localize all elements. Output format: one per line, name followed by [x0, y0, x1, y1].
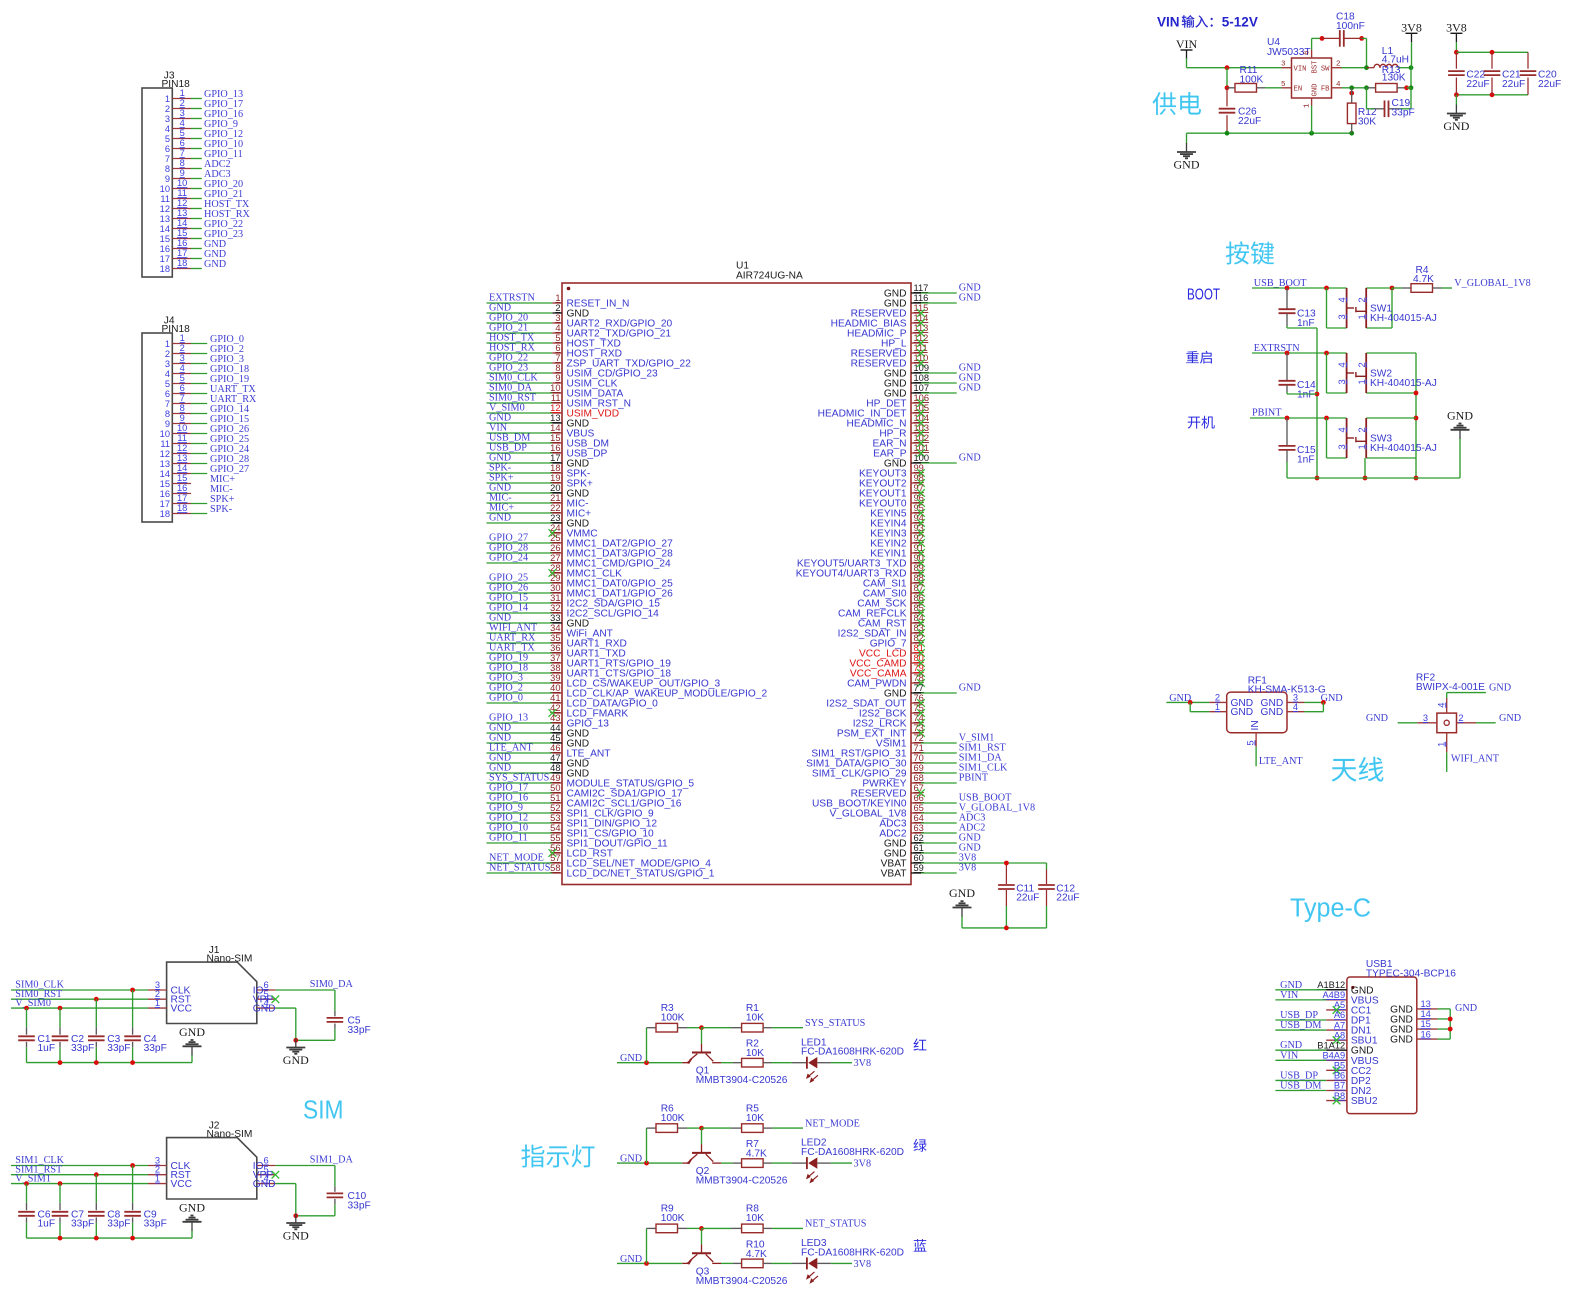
svg-text:12: 12 — [177, 443, 187, 453]
svg-text:66: 66 — [914, 793, 924, 803]
svg-text:4: 4 — [1337, 427, 1347, 432]
svg-text:35: 35 — [550, 633, 560, 643]
svg-text:B4A9: B4A9 — [1322, 1050, 1345, 1060]
svg-text:58: 58 — [550, 863, 560, 873]
svg-text:7: 7 — [180, 393, 185, 403]
svg-text:4: 4 — [180, 118, 185, 128]
svg-text:GND: GND — [959, 683, 981, 694]
svg-text:45: 45 — [550, 733, 560, 743]
svg-text:44: 44 — [550, 723, 560, 733]
svg-text:8: 8 — [180, 158, 185, 168]
svg-text:GND: GND — [283, 1053, 309, 1067]
svg-text:17: 17 — [177, 493, 187, 503]
svg-text:108: 108 — [914, 373, 930, 383]
svg-text:LCD_DC/NET_STATUS/GPIO_1: LCD_DC/NET_STATUS/GPIO_1 — [567, 869, 715, 880]
svg-text:GND: GND — [253, 1004, 276, 1015]
svg-text:13: 13 — [1421, 999, 1431, 1009]
svg-text:GND: GND — [959, 383, 981, 394]
svg-text:9: 9 — [165, 419, 170, 429]
svg-text:54: 54 — [550, 823, 560, 833]
svg-text:6: 6 — [1304, 50, 1312, 55]
svg-text:9: 9 — [165, 174, 170, 184]
svg-text:WIFI_ANT: WIFI_ANT — [1451, 754, 1500, 765]
svg-text:21: 21 — [550, 493, 560, 503]
svg-text:41: 41 — [550, 693, 560, 703]
svg-text:MMBT3904-C20526: MMBT3904-C20526 — [696, 1075, 788, 1086]
svg-text:2: 2 — [1357, 297, 1367, 302]
svg-text:GND: GND — [959, 453, 981, 464]
svg-text:1: 1 — [1436, 742, 1446, 747]
svg-text:SW: SW — [1321, 65, 1330, 73]
svg-text:1: 1 — [180, 333, 185, 343]
svg-text:V_SIM1: V_SIM1 — [15, 1173, 51, 1184]
svg-text:VIN: VIN — [1280, 1050, 1299, 1061]
svg-text:GND: GND — [204, 259, 226, 270]
svg-text:V_SIM0: V_SIM0 — [15, 998, 51, 1009]
svg-text:USB_DM: USB_DM — [1280, 1020, 1321, 1031]
svg-text:114: 114 — [914, 313, 929, 323]
svg-text:4: 4 — [1293, 702, 1298, 712]
svg-text:4: 4 — [1336, 81, 1341, 89]
svg-text:38: 38 — [550, 663, 560, 673]
svg-text:GND: GND — [1455, 1003, 1477, 1014]
svg-text:FC-DA1608HRK-620D: FC-DA1608HRK-620D — [801, 1247, 904, 1258]
svg-text:22uF: 22uF — [1466, 79, 1489, 90]
svg-text:17: 17 — [160, 499, 170, 509]
svg-text:4: 4 — [555, 323, 560, 333]
svg-text:72: 72 — [914, 733, 924, 743]
svg-text:GND: GND — [1174, 158, 1200, 172]
svg-text:A1B12: A1B12 — [1317, 980, 1345, 990]
svg-text:13: 13 — [177, 453, 187, 463]
svg-text:77: 77 — [914, 683, 924, 693]
svg-text:15: 15 — [1421, 1019, 1431, 1029]
svg-text:59: 59 — [914, 863, 924, 873]
svg-text:4: 4 — [1436, 703, 1446, 708]
svg-text:3: 3 — [165, 114, 170, 124]
svg-text:36: 36 — [550, 643, 560, 653]
svg-text:KH-404015-AJ: KH-404015-AJ — [1370, 313, 1437, 324]
svg-text:11: 11 — [177, 433, 187, 443]
svg-text:TYPEC-304-BCP16: TYPEC-304-BCP16 — [1366, 968, 1456, 979]
svg-text:39: 39 — [550, 673, 560, 683]
svg-text:61: 61 — [914, 843, 924, 853]
svg-text:A7: A7 — [1334, 1020, 1345, 1030]
svg-text:3: 3 — [180, 353, 185, 363]
svg-text:40: 40 — [550, 683, 560, 693]
svg-text:PBINT: PBINT — [1252, 408, 1282, 419]
svg-text:6: 6 — [555, 343, 560, 353]
svg-text:22uF: 22uF — [1016, 893, 1039, 904]
svg-text:71: 71 — [914, 743, 924, 753]
svg-text:5-12V: 5-12V — [1222, 15, 1258, 30]
svg-text:22: 22 — [550, 503, 560, 513]
svg-text:100K: 100K — [661, 1013, 685, 1024]
svg-text:VCC: VCC — [171, 1004, 193, 1015]
svg-text:14: 14 — [1421, 1009, 1431, 1019]
svg-text:GND: GND — [489, 513, 511, 524]
svg-text:130K: 130K — [1382, 72, 1406, 83]
svg-text:USB_DM: USB_DM — [1280, 1081, 1321, 1092]
svg-text:15: 15 — [160, 479, 170, 489]
svg-text:68: 68 — [914, 773, 924, 783]
svg-text:3V8: 3V8 — [1401, 20, 1422, 34]
svg-text:16: 16 — [550, 443, 560, 453]
svg-text:65: 65 — [914, 803, 924, 813]
svg-text:27: 27 — [550, 553, 560, 563]
svg-text:10K: 10K — [746, 1048, 764, 1059]
svg-text:23: 23 — [550, 513, 560, 523]
svg-text:4.7K: 4.7K — [746, 1149, 767, 1160]
svg-text:VCC: VCC — [171, 1179, 193, 1190]
svg-text:49: 49 — [550, 773, 560, 783]
svg-text:16: 16 — [177, 483, 187, 493]
svg-text:33pF: 33pF — [348, 1025, 371, 1036]
svg-text:VIN: VIN — [1176, 37, 1198, 51]
svg-text:33pF: 33pF — [107, 1043, 130, 1054]
svg-text:2: 2 — [1458, 713, 1463, 723]
svg-text:10: 10 — [177, 178, 187, 188]
svg-text:VIN: VIN — [1294, 65, 1307, 73]
svg-text:10K: 10K — [746, 1213, 764, 1224]
svg-text:112: 112 — [914, 333, 929, 343]
svg-text:GND: GND — [1231, 707, 1254, 718]
svg-text:5: 5 — [1246, 740, 1256, 745]
svg-text:PIN18: PIN18 — [162, 324, 191, 335]
svg-text:31: 31 — [550, 593, 560, 603]
svg-text:1nF: 1nF — [1297, 390, 1315, 401]
svg-text:4: 4 — [1337, 297, 1347, 302]
svg-text:3: 3 — [1281, 61, 1286, 69]
svg-text:37: 37 — [550, 653, 560, 663]
svg-text:BWIPX-4-001E: BWIPX-4-001E — [1416, 682, 1485, 693]
svg-text:30: 30 — [550, 583, 560, 593]
svg-text:111: 111 — [914, 343, 928, 353]
svg-text:1: 1 — [1304, 103, 1312, 108]
svg-text:57: 57 — [550, 853, 560, 863]
svg-text:GND: GND — [1312, 84, 1320, 97]
svg-text:GPIO_0: GPIO_0 — [489, 693, 523, 704]
svg-text:15: 15 — [550, 433, 560, 443]
svg-text:60: 60 — [914, 853, 924, 863]
svg-text:33pF: 33pF — [144, 1043, 167, 1054]
svg-text:9: 9 — [555, 373, 560, 383]
svg-text:17: 17 — [160, 254, 170, 264]
svg-text:2: 2 — [165, 104, 170, 114]
svg-text:SYS_STATUS: SYS_STATUS — [805, 1018, 866, 1029]
svg-text:SIM1_DA: SIM1_DA — [310, 1155, 354, 1166]
svg-text:5: 5 — [180, 128, 185, 138]
svg-text:6: 6 — [180, 383, 185, 393]
svg-text:9: 9 — [180, 168, 185, 178]
svg-text:14: 14 — [160, 224, 170, 234]
svg-text:12: 12 — [160, 204, 170, 214]
svg-text:16: 16 — [160, 489, 170, 499]
svg-text:25: 25 — [550, 533, 560, 543]
svg-text:18: 18 — [550, 463, 560, 473]
svg-text:26: 26 — [550, 543, 560, 553]
svg-text:4.7K: 4.7K — [746, 1249, 767, 1260]
svg-text:GND: GND — [1443, 119, 1469, 133]
svg-text:13: 13 — [160, 214, 170, 224]
svg-text:1uF: 1uF — [38, 1219, 56, 1230]
svg-text:4.7K: 4.7K — [1413, 274, 1434, 285]
svg-text:2: 2 — [1357, 427, 1367, 432]
svg-text:10K: 10K — [746, 1013, 764, 1024]
svg-text:101: 101 — [914, 443, 930, 453]
svg-text:11: 11 — [160, 194, 170, 204]
svg-text:64: 64 — [914, 813, 924, 823]
svg-text:1: 1 — [1357, 379, 1367, 384]
svg-text:109: 109 — [914, 363, 930, 373]
svg-text:2: 2 — [180, 98, 185, 108]
svg-text:1: 1 — [165, 94, 170, 104]
svg-text:1nF: 1nF — [1297, 455, 1315, 466]
svg-text:33pF: 33pF — [144, 1219, 167, 1230]
svg-text:3V8: 3V8 — [854, 1159, 872, 1170]
svg-text:55: 55 — [550, 833, 560, 843]
svg-text:7: 7 — [555, 353, 560, 363]
svg-text:1: 1 — [555, 293, 560, 303]
svg-text:11: 11 — [551, 393, 561, 403]
svg-text:102: 102 — [914, 433, 930, 443]
svg-text:14: 14 — [177, 463, 187, 473]
svg-text:105: 105 — [914, 403, 930, 413]
svg-text:GND: GND — [1499, 713, 1521, 724]
svg-text:14: 14 — [550, 423, 560, 433]
svg-text:8: 8 — [180, 403, 185, 413]
svg-text:Nano-SIM: Nano-SIM — [207, 954, 253, 965]
svg-text:FC-DA1608HRK-620D: FC-DA1608HRK-620D — [801, 1147, 904, 1158]
svg-text:6: 6 — [180, 138, 185, 148]
svg-text:Type-C: Type-C — [1290, 895, 1371, 923]
svg-text:48: 48 — [550, 763, 560, 773]
svg-text:12: 12 — [177, 198, 187, 208]
svg-text:SIM: SIM — [303, 1097, 344, 1125]
svg-text:100K: 100K — [1240, 75, 1264, 86]
svg-text:GND: GND — [1447, 408, 1473, 422]
svg-text:1uF: 1uF — [38, 1043, 56, 1054]
svg-text:4: 4 — [165, 369, 170, 379]
svg-text:3: 3 — [1423, 713, 1428, 723]
svg-text:4: 4 — [165, 124, 170, 134]
svg-text:14: 14 — [177, 218, 187, 228]
svg-text:33pF: 33pF — [1392, 107, 1415, 118]
svg-text:Nano-SIM: Nano-SIM — [207, 1129, 253, 1140]
svg-text:22uF: 22uF — [1056, 893, 1079, 904]
svg-text:MMBT3904-C20526: MMBT3904-C20526 — [696, 1176, 788, 1187]
svg-text:A6: A6 — [1334, 1010, 1345, 1020]
svg-text:VIN: VIN — [1157, 15, 1180, 30]
svg-text:8: 8 — [165, 409, 170, 419]
svg-text:B7: B7 — [1334, 1081, 1345, 1091]
svg-text:100K: 100K — [661, 1213, 685, 1224]
svg-text:MMBT3904-C20526: MMBT3904-C20526 — [696, 1276, 788, 1287]
svg-text:GND: GND — [1261, 707, 1284, 718]
svg-text:2: 2 — [165, 349, 170, 359]
svg-text:22uF: 22uF — [1238, 116, 1261, 127]
svg-text:3V8: 3V8 — [854, 1058, 872, 1069]
svg-text:1: 1 — [155, 998, 160, 1008]
svg-text:GND: GND — [253, 1179, 276, 1190]
svg-text:47: 47 — [550, 753, 560, 763]
svg-text:13: 13 — [550, 413, 560, 423]
svg-text:33pF: 33pF — [348, 1200, 371, 1211]
svg-text:8: 8 — [165, 164, 170, 174]
svg-text:GND: GND — [959, 293, 981, 304]
svg-text:8: 8 — [555, 363, 560, 373]
svg-text:3: 3 — [555, 313, 560, 323]
svg-text:1: 1 — [1357, 444, 1367, 449]
svg-text:16: 16 — [177, 238, 187, 248]
svg-text:46: 46 — [550, 743, 560, 753]
svg-text:3: 3 — [1337, 444, 1347, 449]
svg-text:34: 34 — [550, 623, 560, 633]
svg-text:29: 29 — [550, 573, 560, 583]
svg-text:GPIO_24: GPIO_24 — [489, 553, 528, 564]
svg-text:13: 13 — [177, 208, 187, 218]
svg-text:5: 5 — [165, 134, 170, 144]
svg-text:3V8: 3V8 — [959, 863, 977, 874]
svg-text:12: 12 — [160, 449, 170, 459]
svg-text:10: 10 — [550, 383, 560, 393]
svg-text:GND: GND — [1390, 1035, 1413, 1046]
svg-text:50: 50 — [550, 783, 560, 793]
svg-text:100K: 100K — [661, 1113, 685, 1124]
svg-text:104: 104 — [914, 413, 930, 423]
svg-text:SBU2: SBU2 — [1351, 1096, 1378, 1107]
svg-text:GND: GND — [179, 1200, 205, 1214]
svg-text:18: 18 — [160, 509, 170, 519]
svg-text:10: 10 — [160, 184, 170, 194]
svg-text:9: 9 — [180, 413, 185, 423]
svg-text:52: 52 — [550, 803, 560, 813]
svg-text:SPK-: SPK- — [210, 504, 233, 515]
svg-text:107: 107 — [914, 383, 930, 393]
svg-text:13: 13 — [160, 459, 170, 469]
svg-text:15: 15 — [177, 473, 187, 483]
svg-text:10K: 10K — [746, 1113, 764, 1124]
svg-text:2: 2 — [1357, 362, 1367, 367]
svg-text:GND: GND — [1489, 683, 1511, 694]
svg-text:32: 32 — [550, 603, 560, 613]
svg-text:4: 4 — [1337, 362, 1347, 367]
svg-text:18: 18 — [177, 258, 187, 268]
svg-text:53: 53 — [550, 813, 560, 823]
svg-text:5: 5 — [180, 373, 185, 383]
svg-text:18: 18 — [160, 264, 170, 274]
svg-text:20: 20 — [550, 483, 560, 493]
svg-text:69: 69 — [914, 763, 924, 773]
svg-text:19: 19 — [550, 473, 560, 483]
svg-text:BST: BST — [1312, 60, 1320, 74]
svg-text:FC-DA1608HRK-620D: FC-DA1608HRK-620D — [801, 1047, 904, 1058]
svg-text:PBINT: PBINT — [959, 773, 989, 784]
svg-text:7: 7 — [165, 399, 170, 409]
svg-text:113: 113 — [914, 323, 929, 333]
svg-text:5: 5 — [555, 333, 560, 343]
svg-text:100: 100 — [914, 453, 930, 463]
svg-text:117: 117 — [914, 283, 929, 293]
svg-text:5: 5 — [1281, 81, 1286, 89]
svg-text:GPIO_11: GPIO_11 — [489, 833, 528, 844]
svg-text:V_GLOBAL_1V8: V_GLOBAL_1V8 — [1454, 278, 1530, 289]
svg-text:1nF: 1nF — [1297, 318, 1315, 329]
svg-text:GND: GND — [1366, 713, 1388, 724]
svg-text:17: 17 — [550, 453, 560, 463]
svg-text:16: 16 — [1421, 1029, 1431, 1039]
svg-text:A4B9: A4B9 — [1322, 990, 1345, 1000]
svg-text:SIM0_DA: SIM0_DA — [310, 979, 354, 990]
svg-text:43: 43 — [550, 713, 560, 723]
svg-text:FB: FB — [1321, 86, 1330, 94]
svg-text:1: 1 — [1357, 314, 1367, 319]
svg-text:1: 1 — [155, 1174, 160, 1184]
svg-text:5: 5 — [165, 379, 170, 389]
svg-text:3V8: 3V8 — [1446, 20, 1467, 34]
svg-text:116: 116 — [914, 293, 929, 303]
svg-text:4: 4 — [180, 363, 185, 373]
svg-text:22uF: 22uF — [1538, 79, 1561, 90]
svg-text:4.7uH: 4.7uH — [1382, 54, 1409, 65]
svg-text:33pF: 33pF — [107, 1219, 130, 1230]
svg-text:7: 7 — [180, 148, 185, 158]
svg-text:KH-404015-AJ: KH-404015-AJ — [1370, 443, 1437, 454]
svg-text:GND: GND — [949, 886, 975, 900]
svg-text:3: 3 — [1337, 379, 1347, 384]
svg-text:33pF: 33pF — [71, 1043, 94, 1054]
svg-text:3: 3 — [165, 359, 170, 369]
svg-text:B6: B6 — [1334, 1071, 1345, 1081]
svg-text:22uF: 22uF — [1502, 79, 1525, 90]
svg-text:BOOT: BOOT — [1187, 287, 1220, 304]
svg-text:NET_STATUS: NET_STATUS — [805, 1219, 867, 1230]
svg-text:30K: 30K — [1358, 116, 1376, 127]
svg-text:PIN18: PIN18 — [162, 79, 191, 90]
svg-text:103: 103 — [914, 423, 930, 433]
svg-text:62: 62 — [914, 833, 924, 843]
svg-text:15: 15 — [160, 234, 170, 244]
svg-text:115: 115 — [914, 303, 929, 313]
svg-text:1: 1 — [1215, 702, 1220, 712]
svg-text:10: 10 — [177, 423, 187, 433]
svg-text:51: 51 — [550, 793, 560, 803]
svg-text:IN: IN — [1250, 720, 1261, 730]
svg-text:6: 6 — [165, 389, 170, 399]
svg-text:3: 3 — [180, 108, 185, 118]
svg-text:10: 10 — [160, 429, 170, 439]
svg-text:63: 63 — [914, 823, 924, 833]
svg-text:106: 106 — [914, 393, 930, 403]
svg-text:KH-SMA-K513-G: KH-SMA-K513-G — [1248, 685, 1326, 696]
svg-text:EN: EN — [1294, 86, 1303, 94]
svg-text:3: 3 — [1337, 314, 1347, 319]
svg-text:7: 7 — [165, 154, 170, 164]
svg-text:110: 110 — [914, 353, 929, 363]
svg-text:2: 2 — [555, 303, 560, 313]
svg-text:33: 33 — [550, 613, 560, 623]
svg-text:1: 1 — [165, 339, 170, 349]
svg-text:NET_MODE: NET_MODE — [805, 1118, 860, 1129]
svg-text:33pF: 33pF — [71, 1219, 94, 1230]
svg-text:14: 14 — [160, 469, 170, 479]
svg-text:15: 15 — [177, 228, 187, 238]
svg-text:16: 16 — [160, 244, 170, 254]
svg-text:12: 12 — [550, 403, 560, 413]
svg-text:17: 17 — [177, 248, 187, 258]
svg-text:NET_STATUS: NET_STATUS — [489, 863, 551, 874]
svg-text:18: 18 — [177, 503, 187, 513]
